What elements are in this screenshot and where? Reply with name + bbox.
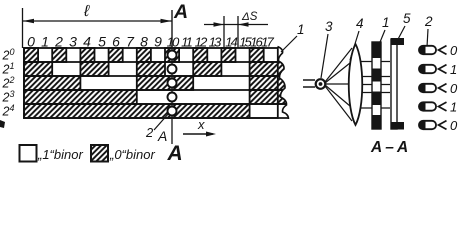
svg-text:9: 9	[154, 34, 162, 50]
svg-text:5: 5	[403, 11, 411, 26]
svg-text:14: 14	[225, 35, 237, 50]
svg-text:0: 0	[450, 81, 458, 96]
svg-text:ΔS: ΔS	[241, 11, 258, 23]
svg-text:1: 1	[450, 100, 457, 115]
svg-text:A – A: A – A	[370, 139, 408, 156]
svg-text:2: 2	[145, 125, 154, 140]
svg-text:1: 1	[382, 15, 390, 30]
svg-text:1: 1	[297, 22, 305, 37]
svg-text:A: A	[173, 1, 188, 23]
svg-text:„1“binor: „1“binor	[37, 147, 83, 162]
svg-text:„0“binor: „0“binor	[109, 147, 155, 162]
svg-text:6: 6	[112, 34, 120, 50]
svg-text:1: 1	[41, 34, 49, 50]
svg-text:A: A	[167, 142, 183, 165]
svg-text:0: 0	[450, 118, 458, 133]
svg-text:2: 2	[424, 14, 433, 29]
svg-text:11: 11	[181, 35, 192, 50]
svg-text:2: 2	[54, 34, 63, 50]
svg-text:0: 0	[27, 34, 35, 50]
svg-text:4: 4	[83, 34, 91, 50]
svg-text:A: A	[157, 128, 167, 144]
svg-text:7: 7	[126, 34, 135, 50]
svg-text:5: 5	[98, 34, 106, 50]
svg-text:3: 3	[69, 34, 77, 50]
svg-text:x: x	[197, 117, 205, 132]
svg-text:4: 4	[356, 16, 364, 31]
svg-text:0: 0	[450, 43, 458, 58]
svg-text:3: 3	[325, 19, 333, 34]
svg-text:ℓ: ℓ	[83, 3, 90, 20]
svg-text:1: 1	[450, 62, 457, 77]
svg-text:8: 8	[140, 34, 148, 50]
